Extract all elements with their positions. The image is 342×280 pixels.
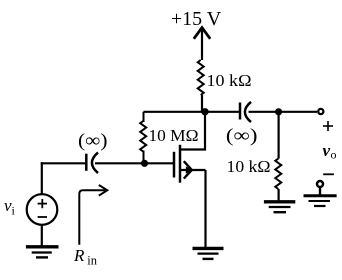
svg-text:+15 V: +15 V: [171, 8, 222, 30]
node: gate junction dot: [141, 160, 148, 167]
svg-text:10 kΩ: 10 kΩ: [227, 157, 271, 176]
wire: top horizontal (drain node line, left to 10M corner): [144, 111, 241, 113]
label + (output): [323, 121, 333, 131]
svg-text:(∞): (∞): [78, 131, 108, 152]
plus sign in source: [38, 199, 47, 208]
transistor Q1: drain lead: [181, 112, 205, 150]
wire: RL to ground: [278, 189, 280, 200]
VDD supply arrow: [194, 28, 210, 39]
transistor Q1: channel bar: [179, 145, 182, 183]
wire: cap to output node and terminal: [249, 111, 318, 113]
wire: source down to ground: [204, 170, 206, 247]
wire: RD bottom to drain node: [201, 95, 203, 112]
Rin arrow: [79, 190, 105, 244]
node: output junction dot: [275, 108, 282, 115]
wire: source vi to cap: [41, 162, 87, 164]
ground (bottom terminal): [304, 196, 337, 206]
output terminal circle (top): [318, 109, 323, 114]
svg-text:10 kΩ: 10 kΩ: [207, 71, 252, 90]
transistor Q1: source lead with arrow: [181, 169, 206, 171]
ground (source of Q1): [193, 248, 224, 259]
capacitor C2 output, straight plate: [239, 103, 242, 120]
svg-text:10 MΩ: 10 MΩ: [149, 126, 199, 145]
wire: output node down to RL: [278, 112, 280, 159]
svg-text:v: v: [323, 141, 331, 160]
resistor RD 10 kOhm (drain): [198, 60, 204, 95]
wire: arrow stem to resistor RD: [201, 28, 203, 60]
wire: bottom terminal stem: [319, 188, 321, 196]
capacitor C1 input, straight plate: [85, 154, 88, 171]
svg-text:o: o: [331, 148, 337, 162]
wire: down to vi source: [41, 162, 43, 194]
wire: vi to ground: [41, 225, 43, 246]
source vi circle: [27, 194, 58, 225]
capacitor C1 input, curved plate: [92, 153, 98, 174]
svg-text:(∞): (∞): [226, 126, 258, 147]
resistor RG 10 MOhm (feedback): corner + zigzag: [140, 112, 146, 164]
svg-text:in: in: [87, 254, 97, 268]
output terminal circle (bottom): [317, 181, 323, 187]
minus sign in source: [38, 216, 47, 218]
capacitor C2 output, curved plate: [245, 102, 251, 122]
transistor Q1: gate bar: [173, 152, 176, 178]
svg-text:R: R: [73, 246, 85, 265]
ground (RL): [264, 202, 295, 212]
resistor RL 10 kOhm (load): [275, 159, 281, 189]
node: drain junction dot: [201, 108, 208, 115]
minus sign (output): [323, 173, 334, 175]
wire: input cap to gate: [95, 162, 173, 164]
ground (vi source): [26, 247, 59, 258]
